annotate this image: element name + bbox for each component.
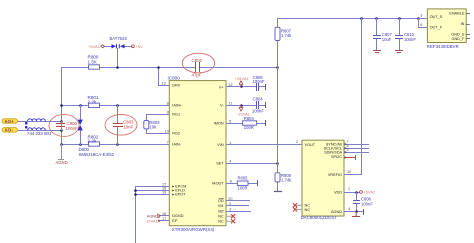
svg-text:GND_F: GND_F [452,37,466,41]
wire SET pin 4 [227,163,278,165]
wires to REF3440 pins [419,18,428,20]
svg-text:IMON: IMON [214,121,224,125]
svg-text:REF3440IDBVR: REF3440IDBVR [427,44,459,49]
svg-text:5: 5 [229,119,231,123]
svg-text:2: 2 [296,140,298,144]
IC REF3440 box [427,9,466,43]
wire row E IAIN- [62,144,170,146]
svg-text:VDD: VDD [334,190,342,194]
capacitor C810 [399,19,401,51]
resistor R805 [237,181,248,185]
svg-text:▸ EPOT: ▸ EPOT [172,193,186,197]
DAC pin numbers [296,140,351,211]
svg-text:2.2k: 2.2k [88,139,97,144]
resistor R804 [243,121,257,125]
svg-text:1.74k: 1.74k [281,178,292,183]
svg-text:9: 9 [167,110,169,114]
svg-text:SDIN/SDA: SDIN/SDA [324,151,342,155]
capacitor C805 [257,84,259,91]
wire vertical left column x61 [61,68,63,145]
svg-text:10nF: 10nF [123,125,133,130]
svg-text:IAOUT: IAOUT [212,182,224,186]
svg-text:AGND: AGND [56,160,68,165]
common-mode choke L800 744 233 801 [28,119,46,130]
svg-text:RG2: RG2 [172,131,180,135]
svg-text:OUT_F: OUT_F [430,26,443,30]
wire RG1 loop [147,115,170,134]
svg-text:VOUT: VOUT [305,143,316,147]
resistor R808 [275,173,280,182]
svg-text:100nF: 100nF [253,79,265,84]
capacitor C803 [105,115,137,136]
svg-text:M1: M1 [218,204,223,208]
connector pin AO+ [2,119,18,124]
wire EP pin [161,220,170,222]
svg-text:VREFIO: VREFIO [328,173,342,177]
ground AGND [59,145,64,160]
power port +5V [132,45,135,48]
svg-text:C802: C802 [192,58,203,63]
svg-text:IN: IN [461,22,465,26]
REF3440 right stubs [466,14,469,39]
svg-text:10: 10 [347,170,351,174]
svg-text:AGND: AGND [331,210,342,214]
wire row B IAIN+ [62,105,170,107]
power +15VA1 [239,81,243,87]
svg-text:4: 4 [229,160,231,164]
svg-text:NC: NC [218,220,224,224]
svg-text:OD: OD [218,199,224,203]
svg-text:ENABLE: ENABLE [449,12,464,16]
svg-text:IAIN-: IAIN- [172,142,181,146]
DAC NC stubs with red X [297,205,303,209]
ground under C806/AGND [353,212,360,217]
svg-text:100nF: 100nF [252,109,264,114]
serial pin clock marks [345,143,348,159]
IC800 left pin names [172,83,186,223]
wire V+ pin 12 [227,86,257,88]
IC800 pin numbers [162,81,169,221]
wire VDD [345,192,360,194]
svg-text:DGND: DGND [172,214,183,218]
IC DAC80501 box [302,140,344,216]
svg-text:AO+: AO+ [5,119,15,124]
svg-text:SET: SET [216,162,224,166]
svg-text:+5VA2: +5VA2 [363,190,376,195]
wire SDIN [345,152,369,154]
svg-text:47pF: 47pF [192,73,202,78]
svg-text:19: 19 [162,190,166,194]
svg-text:RG1: RG1 [172,112,180,116]
resistor R807 [275,27,280,40]
svg-text:100nF: 100nF [66,126,79,131]
svg-text:2.2k: 2.2k [88,99,97,104]
wire VREFIO [345,174,362,176]
wire EPCM EFLD EPOT tie [136,187,170,243]
wire vertical x361 to VREFIO [361,19,363,175]
svg-text:NC: NC [305,208,311,212]
svg-text:IAIN+: IAIN+ [172,104,182,108]
wire top rail [278,18,419,20]
wire row A [62,67,278,69]
svg-text:100R: 100R [238,185,248,190]
wire SYNC [345,144,369,146]
wire vertical x277.5 column [277,19,279,192]
node dots left [60,66,279,196]
wire AGND pin [345,211,364,213]
power +5VA2 [360,191,363,194]
svg-text:10k: 10k [149,124,157,129]
capacitor C807 [376,19,378,51]
IC800 box [169,81,226,226]
wire OD pin 20 [227,200,250,202]
svg-text:10: 10 [165,129,169,133]
wire IAOUT pin 6 [227,183,238,185]
svg-text:8: 8 [167,102,169,106]
resistor R803 [144,121,149,130]
svg-text:R805: R805 [238,176,249,181]
ground under R808 [275,191,282,193]
wire DGND pin [161,215,170,217]
NC stubs with red X [226,215,232,217]
TVS diode D800 [80,106,82,145]
svg-text:744 233 801: 744 233 801 [27,131,52,136]
svg-text:10uF: 10uF [382,37,392,42]
wire M2 pin 3 [227,211,251,213]
wire SCLK [345,148,369,150]
wire AO+ row [18,121,62,123]
svg-text:V+: V+ [219,85,225,89]
svg-text:13: 13 [162,81,166,85]
capacitor C806 [356,193,358,212]
svg-text:11: 11 [228,101,232,105]
wire V- pin 11 [227,105,257,107]
svg-text:C804: C804 [253,97,264,102]
svg-text:4: 4 [348,207,350,211]
svg-text:OUT_S: OUT_S [430,15,443,19]
wire BAT754S branch [105,47,132,68]
wire VIN pin 1 to DAC VOUT [227,144,303,146]
capacitor C800 [49,114,79,136]
capacitor C804 [257,102,259,109]
wire M1 pin 2 [227,205,249,207]
svg-text:BAT754S: BAT754S [110,36,128,41]
svg-text:M2: M2 [218,209,223,213]
svg-text:16: 16 [162,212,166,216]
resistor R800 [89,65,100,69]
svg-text:3: 3 [229,207,231,211]
wire DRV vertical [159,68,170,86]
svg-text:DAC80501ZDGST: DAC80501ZDGST [301,215,338,220]
svg-text:IC800: IC800 [168,76,181,81]
svg-text:1.74k: 1.74k [281,33,292,38]
svg-text:NC: NC [218,215,224,219]
svg-text:+15VA1: +15VA1 [235,76,250,81]
svg-text:AO-: AO- [5,128,14,133]
wire AO- row [18,130,62,132]
svg-text:3: 3 [420,14,422,18]
svg-text:1: 1 [348,187,350,191]
svg-text:100nF: 100nF [404,37,416,42]
svg-text:XTR300AIRGWR(S4): XTR300AIRGWR(S4) [172,227,215,232]
SPI2C tie [345,156,356,160]
svg-text:1.5K: 1.5K [88,60,98,65]
IC800 right pin names [212,85,224,223]
wire IMON pin 5 [227,123,243,125]
svg-text:-15VA1: -15VA1 [145,218,158,223]
svg-text:7: 7 [167,140,169,144]
svg-text:100R: 100R [244,125,254,130]
power -15VA1 [239,105,243,111]
svg-text:+5V: +5V [136,44,144,49]
svg-text:DRV: DRV [172,83,180,87]
resistor R802 [89,142,100,146]
svg-text:+5VA1: +5VA1 [88,44,101,49]
svg-text:17: 17 [162,217,166,221]
svg-text:EP: EP [172,219,178,223]
svg-text:100nF: 100nF [361,202,373,207]
svg-text:6: 6 [230,180,232,184]
svg-text:SMBJ18CA-E3/52: SMBJ18CA-E3/52 [79,152,115,157]
capacitor C802 in series on row A [182,53,214,73]
svg-text:VIN: VIN [217,143,224,147]
svg-text:SPI2C: SPI2C [331,155,342,159]
svg-text:R804: R804 [244,116,255,121]
connector pin AO- [2,128,18,133]
resistor R801 [89,103,100,107]
svg-text:6: 6 [420,23,422,27]
